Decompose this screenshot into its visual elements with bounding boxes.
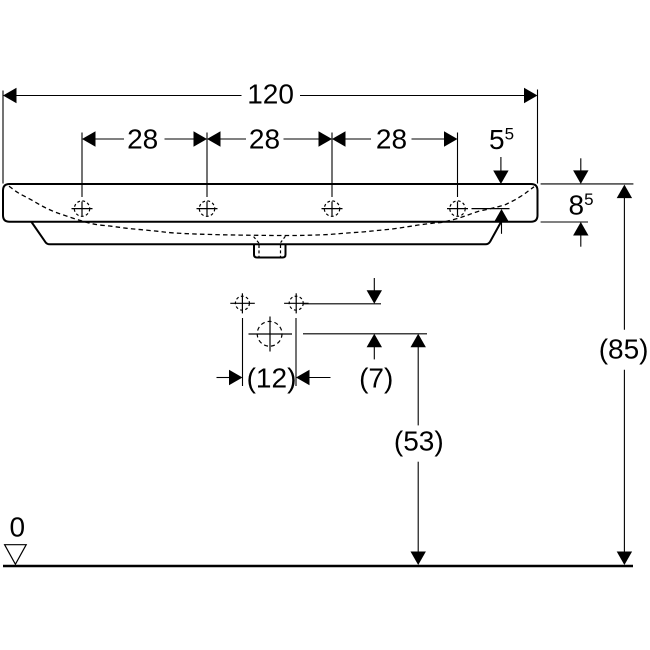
dim 85 line lower — [623, 370, 625, 552]
svg-text:28: 28 — [249, 123, 280, 154]
bowl inner outline dashed curve — [9, 186, 534, 235]
dim 120 arrow right — [524, 88, 538, 103]
dim 7 arrow up tail — [373, 347, 375, 360]
dim 12 extension line right — [295, 318, 297, 386]
svg-text:28: 28 — [376, 123, 407, 154]
dim 8.5 arrow down tail — [580, 158, 582, 170]
tap hole reference line for 5.5 dim — [472, 208, 510, 210]
dim 85 arrow up head — [617, 185, 632, 199]
svg-text:28: 28 — [127, 123, 158, 154]
dim 28 segment 2 line left — [220, 138, 246, 140]
svg-text:120: 120 — [247, 79, 294, 110]
dim 7 arrow down tail — [373, 278, 375, 291]
dim 5.5 arrow down tail — [500, 157, 502, 171]
dim 12 arrow right tail — [309, 377, 331, 379]
dim 85 arrow down head — [617, 552, 632, 566]
fixing hole left — [230, 293, 255, 313]
dim 28 segment 1 arrow left — [82, 131, 96, 146]
dim 7 arrow up head — [367, 334, 382, 348]
dim 28 extension line 3 — [331, 133, 333, 198]
dim 28 segment 1 arrow right — [194, 131, 208, 146]
dim 12 extension line left — [242, 318, 244, 386]
drain funnel dashed left slant — [254, 237, 259, 244]
dim 28 segment 2 arrow right — [319, 131, 333, 146]
dim 120 extension line left — [2, 91, 4, 184]
dim 28 extension line 4 — [457, 133, 459, 198]
dim 28 segment 1 line right — [165, 138, 195, 140]
drain hole dashed circle — [249, 317, 293, 352]
svg-text:(7): (7) — [359, 363, 393, 394]
dim 7 reference line top (fixing hole level) — [303, 303, 381, 305]
tap hole 1 — [72, 201, 93, 216]
dim 28 segment 3 arrow left — [332, 131, 346, 146]
dim 85 line upper — [623, 197, 625, 330]
tap hole 4 — [447, 201, 468, 216]
dim 5.5 arrow down head — [493, 171, 508, 185]
dim 28 segment 1 line left — [95, 138, 124, 140]
dim 28 segment 3 line left — [345, 138, 371, 140]
datum triangle — [5, 545, 27, 565]
dim 12 arrow right head — [296, 370, 310, 385]
dim 8.5 arrow up head — [573, 222, 588, 236]
dim 53 line upper — [417, 347, 419, 426]
dim 7 reference line bottom (drain level) — [303, 333, 427, 335]
drain pipe dashed left vertical — [258, 245, 260, 257]
tap hole 3 — [322, 201, 343, 216]
dim 28 segment 3 arrow right — [444, 131, 458, 146]
dim 120 line left part — [16, 95, 242, 97]
drain pipe dashed right vertical — [280, 245, 282, 257]
dim 8.5 arrow up tail — [580, 235, 582, 247]
floor line — [3, 565, 633, 568]
drain funnel dashed right slant — [281, 236, 286, 242]
dim 28 segment 2 line right — [284, 138, 320, 140]
dim 8.5 extension line top — [541, 183, 634, 185]
dim 7 arrow down head — [367, 290, 382, 304]
dim 28 extension line 2 — [206, 133, 208, 198]
washbasin underside — [32, 222, 502, 244]
dim 12 arrow left head — [229, 370, 243, 385]
dim 5.5 arrow up tail — [501, 222, 503, 234]
tap hole 2 — [197, 201, 218, 216]
dim 8.5 arrow down head — [573, 170, 588, 184]
svg-text:(85): (85) — [599, 334, 649, 365]
svg-text:(12): (12) — [247, 363, 297, 394]
washbasin rim outline — [3, 184, 538, 222]
drain collar — [254, 244, 286, 257]
dim 28 segment 2 arrow left — [207, 131, 221, 146]
svg-text:(53): (53) — [394, 426, 444, 457]
dim 5.5 arrow up head — [494, 209, 509, 223]
fixing hole right — [284, 293, 309, 313]
svg-text:0: 0 — [10, 512, 26, 543]
dim 12 arrow left tail — [217, 377, 230, 379]
dim 120 extension line right — [537, 90, 539, 184]
dim 8.5 extension line bottom — [541, 221, 588, 223]
dim 28 segment 3 line right — [412, 138, 445, 140]
dim 53 arrow up head — [411, 334, 426, 348]
dim 28 extension line 1 — [81, 133, 83, 198]
dim 120 line right part — [300, 95, 525, 97]
dim 53 arrow down head — [411, 552, 426, 566]
dim 53 line lower — [417, 462, 419, 552]
dim 120 arrow left — [3, 88, 17, 103]
